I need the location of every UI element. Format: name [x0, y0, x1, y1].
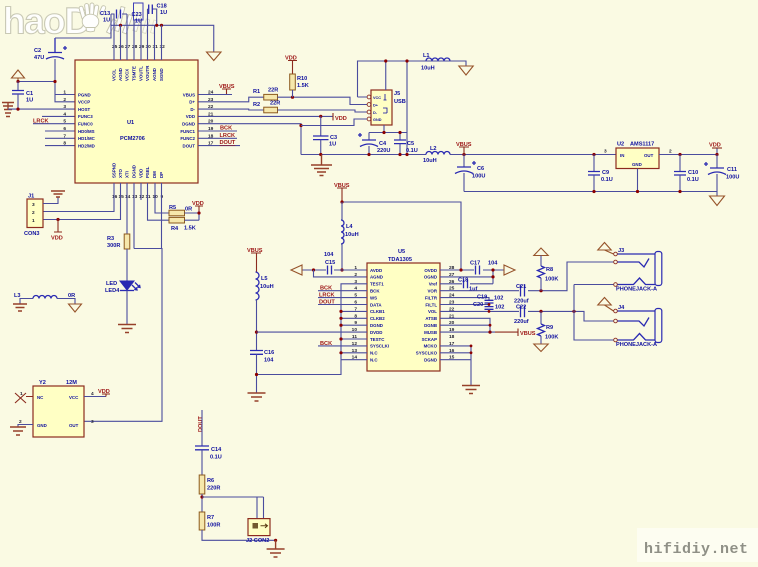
- svg-text:VOL: VOL: [428, 309, 437, 314]
- svg-text:D+: D+: [373, 104, 379, 108]
- svg-text:AVDD: AVDD: [370, 268, 382, 273]
- power flag VBUS (pin24): [219, 84, 235, 95]
- svg-text:47U: 47U: [34, 55, 44, 61]
- capacitor C19: [440, 295, 503, 304]
- svg-text:NC: NC: [37, 395, 44, 400]
- net label LRCK (pin18): [198, 137, 237, 139]
- svg-text:U2: U2: [617, 142, 624, 148]
- svg-text:PCM2706: PCM2706: [120, 136, 145, 142]
- usb connector J5: [367, 90, 406, 125]
- resistor R3: [107, 234, 130, 281]
- svg-text:VCCL: VCCL: [112, 69, 117, 81]
- svg-text:AGND: AGND: [118, 68, 123, 81]
- ground (L3 right, open triangle): [69, 304, 82, 312]
- svg-text:AMS1117: AMS1117: [630, 142, 654, 148]
- svg-text:31: 31: [153, 44, 159, 50]
- connector J1 CON3: [24, 194, 43, 238]
- power flag VDD (U2 out): [709, 143, 722, 149]
- svg-text:LRCK: LRCK: [319, 293, 335, 299]
- svg-text:HD2/MD: HD2/MD: [78, 143, 95, 148]
- resistor R5: [169, 205, 192, 216]
- capacitor C17: [470, 261, 498, 275]
- svg-text:VOUTR: VOUTR: [145, 65, 150, 81]
- svg-text:LED4: LED4: [105, 288, 120, 294]
- svg-text:C18: C18: [157, 4, 167, 10]
- svg-text:VBUS: VBUS: [183, 92, 195, 97]
- capacitor C15 and left arrow: [302, 252, 342, 275]
- svg-text:Vref: Vref: [429, 282, 438, 287]
- svg-text:100K: 100K: [545, 335, 558, 341]
- svg-text:102: 102: [494, 296, 503, 302]
- svg-text:VDD: VDD: [186, 114, 195, 119]
- wire U5 pin2: [314, 270, 368, 277]
- svg-text:OGND: OGND: [424, 275, 437, 280]
- wire L1 to ground: [450, 61, 466, 66]
- svg-text:MUSB: MUSB: [424, 330, 437, 335]
- svg-text:C23: C23: [132, 12, 142, 18]
- svg-text:VCC: VCC: [373, 96, 381, 100]
- svg-text:6: 6: [63, 126, 66, 132]
- svg-text:220uf: 220uf: [514, 319, 529, 325]
- wire U5 pin22 VOL with C22: [440, 311, 614, 321]
- svg-text:ATSB: ATSB: [425, 316, 437, 321]
- U1 bottom pin wires: [43, 183, 169, 249]
- wire J1 pin3 to small ground: [43, 197, 58, 204]
- svg-text:C3: C3: [330, 135, 337, 141]
- svg-text:R5: R5: [169, 205, 176, 211]
- svg-text:N.C: N.C: [370, 351, 378, 356]
- arrow connector (left): [291, 265, 302, 275]
- wire U5 pin28 OVDD with C17: [440, 269, 504, 271]
- svg-text:3: 3: [63, 104, 66, 110]
- connector J2 CON2: [246, 519, 270, 544]
- svg-text:32: 32: [160, 44, 166, 50]
- svg-text:100U: 100U: [472, 174, 485, 180]
- svg-text:R9: R9: [546, 325, 553, 331]
- svg-text:14: 14: [125, 194, 131, 200]
- svg-text:PGND: PGND: [78, 92, 91, 97]
- ground rail under USB: [301, 154, 426, 156]
- svg-text:3: 3: [604, 149, 607, 155]
- wire node left power: [18, 82, 75, 102]
- svg-text:1: 1: [32, 218, 35, 224]
- wire Y2 out: [83, 420, 85, 422]
- svg-text:C15: C15: [325, 260, 335, 266]
- svg-text:SYSCLKI: SYSCLKI: [370, 344, 389, 349]
- wires pins 7 8 9 11 13 14 to bus: [341, 311, 367, 359]
- svg-text:26: 26: [119, 44, 125, 50]
- wires U5 pins 17 16 15 to ground: [440, 346, 471, 385]
- svg-text:U1: U1: [127, 120, 134, 126]
- svg-text:C11: C11: [727, 167, 737, 173]
- svg-text:C19: C19: [477, 295, 487, 301]
- earth ground (Y2): [10, 427, 26, 435]
- wires R5 R4 to VDD: [185, 211, 200, 220]
- wire DOUT chain top: [201, 410, 203, 446]
- svg-text:TDA1305: TDA1305: [388, 257, 412, 263]
- svg-text:FUNC0: FUNC0: [78, 122, 93, 127]
- capacitor C5: [394, 140, 418, 155]
- svg-text:hifidiy.net: hifidiy.net: [644, 541, 749, 558]
- svg-text:C21: C21: [516, 284, 526, 290]
- svg-text:GND: GND: [373, 118, 382, 122]
- svg-text:HOST: HOST: [78, 107, 91, 112]
- wire XTI route to Y2: [84, 249, 162, 422]
- wire pin4 row: [42, 115, 75, 117]
- ground (top, open triangle): [207, 52, 222, 61]
- svg-text:GND: GND: [632, 162, 642, 167]
- svg-text:FUNC3: FUNC3: [78, 114, 93, 119]
- resistor R6: [199, 475, 220, 512]
- inductor L4: [340, 202, 358, 272]
- earth ground (USB): [311, 155, 332, 176]
- svg-text:2: 2: [354, 272, 357, 278]
- svg-text:12: 12: [139, 194, 145, 200]
- svg-text:22R: 22R: [270, 101, 280, 107]
- wire R6/R7 junction to J2: [202, 497, 264, 519]
- svg-text:PHONEJACK-A: PHONEJACK-A: [616, 342, 657, 348]
- wire C2 to C13 riser: [55, 14, 111, 38]
- svg-text:27: 27: [125, 44, 131, 50]
- wire L3 right to power ground: [57, 299, 75, 305]
- wire pin21 VDD row: [198, 115, 333, 117]
- wire L3 left to earth ground: [20, 299, 33, 305]
- wire pin5 row: [33, 123, 75, 125]
- svg-text:USB: USB: [394, 99, 406, 105]
- capacitor C11 electrolytic: [704, 155, 739, 192]
- wire pin24: [198, 94, 232, 96]
- svg-text:U5: U5: [398, 249, 405, 255]
- svg-text:BCK: BCK: [370, 289, 380, 294]
- U5 pin3 and test-pin bus: [257, 284, 368, 375]
- capacitor C18 (Vref bypass): [440, 278, 493, 293]
- power flag VDD (pin21): [333, 113, 347, 122]
- svg-text:D-: D-: [190, 107, 195, 112]
- wire pin7 row: [45, 137, 75, 139]
- svg-text:OUT: OUT: [69, 423, 79, 428]
- svg-text:VDD: VDD: [51, 236, 63, 242]
- capacitor C14: [195, 446, 222, 475]
- svg-text:VOR: VOR: [427, 289, 437, 294]
- resistor R4: [169, 217, 196, 232]
- capacitor C13: [100, 10, 127, 24]
- svg-text:C16: C16: [264, 350, 274, 356]
- chassis ground (left hatched): [2, 103, 14, 117]
- C4 C5 top wire: [369, 125, 407, 140]
- svg-text:DP: DP: [159, 172, 164, 178]
- svg-text:L4: L4: [346, 224, 353, 230]
- capacitor C18: [148, 4, 168, 26]
- svg-text:Y2: Y2: [39, 380, 46, 386]
- svg-text:FUNC2: FUNC2: [180, 136, 195, 141]
- svg-text:DGND: DGND: [370, 323, 383, 328]
- svg-text:VDD: VDD: [335, 116, 347, 122]
- svg-text:C22: C22: [516, 305, 526, 311]
- wire U2 out: [659, 148, 717, 155]
- svg-text:7: 7: [63, 133, 66, 139]
- resistor R8: [534, 248, 559, 291]
- svg-text:C4: C4: [379, 141, 387, 147]
- svg-text:VCC: VCC: [69, 395, 79, 400]
- capacitor C3: [313, 116, 337, 154]
- capacitor C2: [34, 38, 67, 61]
- resistor R2: [253, 101, 280, 113]
- svg-text:BCK: BCK: [320, 286, 332, 292]
- wire R1 to J5 D+: [278, 97, 368, 104]
- svg-text:1U: 1U: [103, 18, 110, 24]
- svg-text:FILTL: FILTL: [425, 302, 437, 307]
- power flag VDD (J1 pin1, below): [51, 218, 63, 242]
- svg-text:TEST1: TEST1: [370, 282, 384, 287]
- svg-text:BCK: BCK: [320, 341, 332, 347]
- svg-text:104: 104: [324, 252, 334, 258]
- watermark haoDIY logo: [3, 1, 157, 42]
- svg-text:0.1U: 0.1U: [601, 177, 613, 183]
- oscillator Y2 12M: [19, 380, 94, 437]
- svg-text:DOUT: DOUT: [319, 299, 335, 305]
- svg-text:VDD: VDD: [98, 389, 110, 395]
- svg-text:WS: WS: [370, 295, 377, 300]
- svg-text:1: 1: [63, 90, 66, 96]
- svg-text:CLKB1: CLKB1: [370, 309, 385, 314]
- wire top rail VBUS: [358, 61, 467, 155]
- capacitor C4 electrolytic: [358, 133, 390, 155]
- svg-text:BCK: BCK: [220, 126, 232, 132]
- crystal/cap C23: [132, 3, 144, 25]
- svg-text:HD1/MC: HD1/MC: [78, 136, 96, 141]
- J5 GND pin wire: [301, 119, 367, 126]
- svg-text:DGND: DGND: [132, 165, 137, 178]
- svg-text:100K: 100K: [545, 277, 558, 283]
- svg-text:1.5K: 1.5K: [184, 226, 196, 232]
- svg-text:28: 28: [132, 44, 138, 50]
- svg-text:VOUTL: VOUTL: [139, 66, 144, 81]
- svg-text:DOUT: DOUT: [183, 143, 196, 148]
- capacitor C6 electrolytic: [455, 155, 485, 192]
- svg-text:DM: DM: [152, 171, 157, 178]
- svg-text:SCKAP: SCKAP: [422, 337, 437, 342]
- svg-text:L5: L5: [261, 276, 268, 282]
- svg-text:FUNC1: FUNC1: [180, 129, 195, 134]
- jack J4 PHONEJACK-A: [598, 298, 662, 349]
- svg-text:100R: 100R: [207, 523, 220, 529]
- svg-text:C2: C2: [34, 48, 41, 54]
- earth ground (J1 pin3): [51, 191, 65, 197]
- svg-text:L1: L1: [423, 53, 430, 59]
- svg-text:VDD: VDD: [192, 201, 204, 207]
- svg-text:AGND: AGND: [370, 275, 383, 280]
- power flag VBUS (rail): [456, 142, 472, 155]
- wire U5 pin25 VOR with C21: [440, 262, 614, 291]
- wires U5 pins 21 20 19: [440, 318, 495, 332]
- wire U5 pin27 OGND: [440, 270, 493, 284]
- svg-text:L2: L2: [430, 146, 437, 152]
- capacitor C1: [12, 82, 33, 110]
- svg-text:3: 3: [91, 419, 94, 425]
- wire U5 pin1: [342, 269, 367, 271]
- wire Y2 pin2 to ground: [18, 425, 33, 428]
- inductor L5: [255, 272, 274, 350]
- svg-text:LRCK: LRCK: [220, 133, 236, 139]
- svg-text:3: 3: [32, 202, 35, 208]
- wire U5 pin10 DVDD: [257, 331, 368, 333]
- earth ground (J2): [267, 540, 285, 557]
- svg-text:C9: C9: [602, 170, 609, 176]
- svg-text:XTI: XTI: [125, 171, 130, 178]
- power flag VDD (Y2): [98, 389, 110, 397]
- IC U5 TDA1305: [352, 249, 455, 371]
- svg-text:0R: 0R: [185, 207, 192, 213]
- junction dots top rail: [119, 24, 122, 27]
- wire pin22 to R2: [198, 108, 264, 111]
- LED LED4: [105, 281, 140, 324]
- arrow connector (right): [504, 265, 515, 275]
- svg-text:LED: LED: [106, 281, 117, 287]
- svg-text:TESTC: TESTC: [370, 337, 385, 342]
- ground (after L1): [459, 66, 473, 75]
- svg-text:C18: C18: [458, 278, 468, 284]
- net label BCK (U5 pin12): [318, 345, 367, 347]
- power flag VDD (R5 R4): [192, 201, 204, 211]
- capacitor C21: [514, 284, 529, 305]
- svg-text:FILTR: FILTR: [425, 295, 438, 300]
- svg-text:haoD: haoD: [3, 1, 90, 42]
- wire C2 bottom: [54, 59, 56, 82]
- svg-text:R6: R6: [207, 478, 214, 484]
- svg-text:18: 18: [449, 334, 455, 340]
- regulator U2 AMS1117: [604, 142, 672, 192]
- svg-text:100U: 100U: [726, 175, 739, 181]
- svg-text:DVDD: DVDD: [370, 330, 382, 335]
- inductor L1: [421, 53, 450, 72]
- wire VBUS to U5 pin28: [342, 202, 461, 270]
- power flag VDD (R10 top): [285, 56, 297, 75]
- no-connect X (Y2 pin1): [15, 393, 33, 403]
- power flag VBUS (L4): [334, 183, 350, 202]
- svg-text:VCCP: VCCP: [78, 100, 90, 105]
- resistor R1: [253, 88, 278, 101]
- svg-text:J2 CON2: J2 CON2: [246, 538, 269, 544]
- svg-text:C6: C6: [477, 166, 484, 172]
- svg-text:4: 4: [63, 111, 66, 117]
- capacitor C16: [250, 350, 274, 393]
- svg-text:AGND: AGND: [152, 68, 157, 81]
- svg-text:CLKB2: CLKB2: [370, 316, 385, 321]
- svg-text:2: 2: [669, 149, 672, 155]
- power VCC up-triangle (left): [12, 70, 25, 82]
- U1 top pin wires: [114, 9, 162, 60]
- svg-text:2: 2: [32, 210, 35, 216]
- svg-text:16: 16: [112, 194, 118, 200]
- svg-text:R8: R8: [546, 267, 553, 273]
- svg-text:SYSCLKO: SYSCLKO: [416, 351, 438, 356]
- svg-text:VDD: VDD: [139, 169, 144, 178]
- wire pin3 row: [8, 108, 75, 110]
- svg-text:0.1U: 0.1U: [210, 455, 222, 461]
- svg-text:DGND: DGND: [424, 358, 437, 363]
- svg-text:SSPND: SSPND: [112, 163, 117, 178]
- net label BCK (pin19): [198, 130, 237, 132]
- svg-text:R1: R1: [253, 89, 260, 95]
- svg-text:GND: GND: [37, 423, 47, 428]
- svg-text:HD0/MS: HD0/MS: [78, 129, 95, 134]
- svg-text:30: 30: [146, 44, 152, 50]
- svg-text:DOUT: DOUT: [220, 140, 236, 146]
- svg-text:10uH: 10uH: [345, 232, 359, 238]
- svg-text:102: 102: [495, 305, 504, 311]
- regulator bottom rail: [464, 192, 717, 197]
- svg-text:1: 1: [354, 265, 357, 271]
- earth ground (LED): [118, 325, 136, 333]
- svg-text:MCKO: MCKO: [424, 344, 438, 349]
- svg-text:2: 2: [63, 97, 66, 103]
- power flag VBUS (L5): [247, 248, 263, 272]
- net labels BCK LRCK DOUT (U5 left): [318, 291, 367, 305]
- svg-text:N.C: N.C: [370, 358, 378, 363]
- svg-text:SGND: SGND: [159, 68, 164, 81]
- power flag VBUS (U5 pin19): [518, 329, 536, 338]
- svg-text:DOUT: DOUT: [198, 416, 204, 432]
- svg-text:OUT: OUT: [644, 153, 654, 158]
- svg-text:8: 8: [63, 141, 66, 147]
- VBUS rail to regulator: [450, 154, 616, 156]
- svg-text:R3: R3: [107, 236, 114, 242]
- IC U1 PCM2706: [63, 44, 213, 200]
- ground (regulator): [710, 196, 725, 206]
- svg-text:DATA: DATA: [370, 302, 382, 307]
- svg-text:J5: J5: [394, 91, 400, 97]
- svg-text:PHONEJACK-A: PHONEJACK-A: [616, 287, 657, 293]
- svg-text:IN: IN: [620, 153, 624, 158]
- svg-text:C5: C5: [407, 141, 414, 147]
- svg-text:TSMTE: TSMTE: [132, 66, 137, 81]
- wire pin6 row: [45, 130, 75, 132]
- svg-text:R4: R4: [171, 226, 179, 232]
- svg-text:10uH: 10uH: [421, 66, 435, 72]
- svg-text:D+: D+: [189, 100, 195, 105]
- svg-text:10uH: 10uH: [423, 158, 437, 164]
- svg-text:11: 11: [146, 194, 151, 200]
- svg-text:C20: C20: [473, 302, 483, 308]
- svg-text:13: 13: [132, 194, 138, 200]
- svg-text:OVDD: OVDD: [424, 268, 437, 273]
- wire Y2 VCC to VDD: [84, 396, 106, 398]
- svg-text:10uH: 10uH: [260, 284, 274, 290]
- svg-text:XTO: XTO: [118, 168, 123, 178]
- svg-text:104: 104: [264, 358, 274, 364]
- hifidiy.net watermark: [637, 528, 758, 562]
- svg-text:29: 29: [139, 44, 145, 50]
- resistor R9: [534, 311, 559, 351]
- svg-text:220R: 220R: [207, 486, 220, 492]
- svg-text:DGNB: DGNB: [424, 323, 437, 328]
- svg-text:R2: R2: [253, 102, 260, 108]
- svg-text:22R: 22R: [268, 88, 278, 94]
- svg-text:1uf: 1uf: [469, 287, 478, 293]
- svg-text:C14: C14: [211, 447, 222, 453]
- svg-text:VBUS: VBUS: [520, 331, 536, 337]
- svg-text:C17: C17: [470, 261, 480, 267]
- inductor L3: [14, 293, 75, 299]
- svg-text:0.1U: 0.1U: [687, 177, 699, 183]
- svg-text:J3: J3: [618, 248, 624, 254]
- svg-text:12M: 12M: [66, 380, 77, 386]
- svg-text:C1: C1: [26, 91, 33, 97]
- inductor L2: [423, 146, 450, 164]
- svg-text:J4: J4: [618, 305, 625, 311]
- capacitor C20: [440, 302, 504, 311]
- svg-text:PSEL: PSEL: [145, 166, 150, 178]
